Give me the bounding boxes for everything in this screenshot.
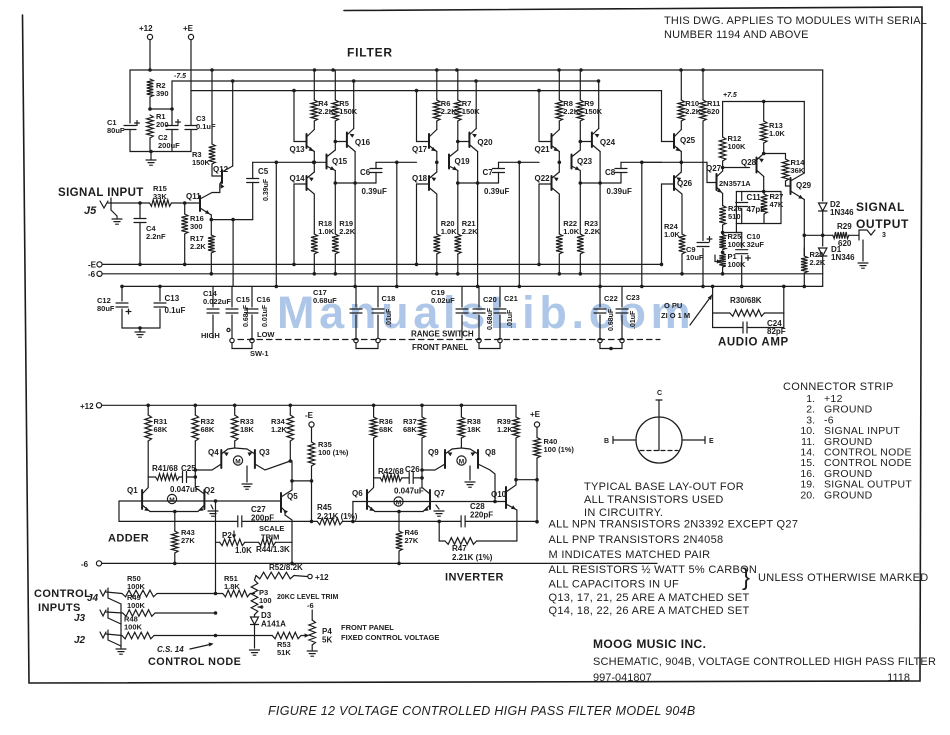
capacitor C18 .01uF (377, 286, 379, 307)
capacitor C8 0.39uF (620, 173, 622, 184)
svg-text:+E: +E (530, 410, 541, 419)
+12 terminal (adder) (96, 403, 101, 408)
svg-text:FIGURE 12 VOLTAGE CONTROLLED: FIGURE 12 VOLTAGE CONTROLLED HIGH PASS F… (268, 704, 696, 718)
node R16 tap (183, 201, 187, 205)
wire to summing line (118, 501, 120, 521)
+E terminal (188, 34, 193, 39)
wire Q14 base to -E bus (293, 184, 295, 264)
svg-text:.01uF: .01uF (507, 309, 514, 328)
svg-text:J2: J2 (74, 635, 86, 646)
svg-text:2.2K: 2.2K (190, 242, 206, 251)
output jack (858, 230, 860, 240)
wire +E down to +E bus corner (190, 40, 192, 91)
wire node drop to cap bus (641, 162, 643, 286)
svg-text:220pF: 220pF (470, 511, 493, 520)
svg-text:CONTROL NODE: CONTROL NODE (148, 656, 241, 668)
svg-text:1.2K: 1.2K (271, 425, 287, 434)
capacitor C20 0.68uF (478, 286, 480, 307)
svg-text:5K: 5K (322, 636, 332, 645)
wire Q26 base to -E bus (661, 184, 663, 264)
+12 adder bus (102, 404, 516, 406)
wire top bus corner down to D2 (822, 70, 824, 201)
svg-text:0.02uF: 0.02uF (431, 296, 455, 305)
svg-text:18K: 18K (467, 425, 481, 434)
jack ground rail (108, 598, 121, 648)
diode D3 A141A (254, 615, 256, 617)
svg-text:Q22: Q22 (535, 174, 551, 183)
svg-text:C13: C13 (165, 294, 180, 303)
svg-text:2.2nF: 2.2nF (146, 232, 166, 241)
svg-text:1.0K: 1.0K (769, 129, 785, 138)
svg-text:0.68uF: 0.68uF (313, 296, 337, 305)
capacitor C22 0.68uF (599, 286, 601, 307)
capacitor C11 47pF (741, 192, 743, 201)
resistor R32 68K (194, 405, 196, 415)
svg-text:ALL TRANSISTORS USED: ALL TRANSISTORS USED (584, 494, 724, 506)
wire R35 down to summing node (311, 481, 313, 522)
svg-text:Q21: Q21 (535, 145, 551, 154)
wire Q5 emitter down (285, 515, 292, 542)
resistor R35 100 (1%) (311, 427, 313, 442)
svg-text:100K: 100K (127, 601, 146, 610)
resistor R5 150K (334, 70, 336, 100)
capacitor C23 .01uF (621, 286, 623, 307)
resistor R43 27K (174, 512, 176, 532)
svg-text:0.39uF: 0.39uF (484, 187, 509, 196)
wire Q24 collector down (599, 152, 601, 184)
+12 terminal (R52) (308, 574, 312, 578)
svg-text:200: 200 (156, 120, 169, 129)
svg-text:100K: 100K (124, 622, 143, 631)
svg-text:M: M (235, 459, 240, 466)
svg-text:Q28: Q28 (741, 158, 757, 167)
svg-text:A141A: A141A (261, 620, 286, 629)
svg-text:LOW: LOW (257, 330, 275, 339)
svg-text:C7: C7 (483, 168, 494, 177)
svg-text:100K: 100K (728, 142, 747, 151)
ground at J5 (111, 210, 117, 216)
wire Q11 emitter node (211, 219, 252, 221)
svg-text:Q9: Q9 (428, 448, 439, 457)
svg-text:IN CIRCUITRY.: IN CIRCUITRY. (584, 507, 663, 519)
svg-text:AUDIO AMP: AUDIO AMP (718, 337, 789, 349)
svg-text:R52/8.2K: R52/8.2K (269, 563, 303, 572)
svg-text:100 (1%): 100 (1%) (544, 445, 575, 454)
wire C9 line (702, 121, 704, 241)
capacitor C2 (171, 81, 173, 109)
resistor R14 36K (785, 154, 787, 160)
svg-text:0.1uF: 0.1uF (165, 306, 186, 315)
wire node line to next stage (499, 161, 540, 163)
wire Q24 emitter to -7.5 bus (598, 81, 600, 129)
svg-text:C15: C15 (236, 295, 250, 304)
svg-text:Q8: Q8 (485, 448, 496, 457)
svg-text:CONNECTOR STRIP: CONNECTOR STRIP (783, 381, 894, 393)
svg-text:ADDER: ADDER (108, 533, 149, 545)
svg-text:FRONT PANEL: FRONT PANEL (412, 343, 468, 352)
svg-text:THIS DWG. APPLIES TO MODULES W: THIS DWG. APPLIES TO MODULES WITH SERIAL (664, 15, 927, 27)
ground between Q9/Q8 (469, 466, 471, 480)
control node junctions (214, 592, 218, 596)
wire stage Q17 base feed (416, 91, 418, 142)
node C4 tap (138, 201, 142, 205)
svg-text:O PU: O PU (664, 301, 682, 310)
svg-text:2.2K: 2.2K (462, 227, 478, 236)
svg-text:Q20: Q20 (477, 138, 493, 147)
svg-text:1.2K: 1.2K (497, 425, 513, 434)
node R26/R25 (721, 231, 725, 235)
svg-text:C18: C18 (382, 294, 396, 303)
svg-text:+12: +12 (315, 573, 329, 582)
svg-text:Q24: Q24 (600, 138, 616, 147)
node R2/R1 junction (148, 107, 152, 111)
svg-text:0.68uF: 0.68uF (608, 308, 615, 331)
svg-text:0.68uF: 0.68uF (487, 307, 494, 330)
svg-text:27K: 27K (181, 536, 195, 545)
ground for C12/C13 (138, 326, 142, 330)
switch contacts stage4 (598, 338, 602, 342)
svg-text:2.2K: 2.2K (810, 258, 826, 267)
svg-text:.01uF: .01uF (386, 308, 393, 327)
wire node drop to cap bus (518, 162, 520, 286)
node switch-cap drop stage0 (231, 218, 235, 222)
node R32 bottom (194, 475, 198, 479)
svg-text:Q13: Q13 (290, 145, 306, 154)
wire stage4 node to Q27 (643, 161, 708, 163)
resistor R45 2.21K (1%) (317, 518, 342, 525)
svg-text:SCHEMATIC, 904B, VOLTAGE CONTR: SCHEMATIC, 904B, VOLTAGE CONTROLLED HIGH… (593, 656, 936, 668)
wire R14 top (762, 152, 766, 156)
svg-text:C25: C25 (181, 464, 196, 473)
resistor R15 (150, 200, 172, 207)
bus +E (third rail) (191, 90, 662, 92)
svg-text:-7.5: -7.5 (174, 73, 186, 80)
capacitor C4 (139, 203, 141, 219)
capacitor C12 80uF (121, 286, 123, 301)
svg-text:27K: 27K (405, 536, 419, 545)
svg-text:150K: 150K (192, 158, 211, 167)
svg-text:M: M (459, 459, 464, 466)
resistor R10 2.2K (680, 70, 682, 100)
svg-text:C5: C5 (258, 167, 269, 176)
-6 bottom bus (102, 562, 657, 564)
svg-text:200uF: 200uF (158, 141, 180, 150)
svg-text:100K: 100K (728, 240, 747, 249)
wire Q28 collector to feedback box (763, 177, 765, 192)
+12 terminal (147, 34, 152, 39)
switch SW-1 contacts stage1 (230, 338, 234, 342)
svg-text:M INDICATES MATCHED PAIR: M INDICATES MATCHED PAIR (549, 549, 711, 561)
wire Q12 collector to -7.5 bus (232, 81, 234, 166)
resistor R40 100 (1%) (536, 427, 538, 437)
capacitor C3 (190, 91, 192, 126)
svg-text:Q3: Q3 (259, 448, 270, 457)
svg-text:1118: 1118 (887, 672, 910, 684)
output line (821, 234, 825, 238)
capacitor C9 (697, 242, 709, 244)
svg-text:100: 100 (259, 596, 272, 605)
svg-text:Q18: Q18 (412, 174, 428, 183)
svg-text:INVERTER: INVERTER (445, 572, 504, 584)
svg-text:10uF: 10uF (686, 253, 704, 262)
resistor R47 2.21K (1%) (438, 521, 440, 541)
wire stage4 base feed (661, 91, 663, 142)
svg-text:FIXED CONTROL VOLTAGE: FIXED CONTROL VOLTAGE (341, 633, 439, 642)
wire stage Q21 base feed (538, 91, 540, 142)
svg-text:J5: J5 (84, 205, 97, 217)
wire +12 to bus (149, 40, 151, 70)
svg-text:1N346: 1N346 (831, 253, 855, 262)
svg-text:Q14: Q14 (290, 174, 306, 183)
resistor R12 100K (722, 102, 724, 138)
resistor R22 1.0K (556, 234, 563, 254)
capacitor C19 0.02uF (461, 286, 463, 307)
resistor R36 68K (373, 405, 375, 417)
svg-text:-E: -E (305, 411, 314, 420)
wire lower drop to cap bus (477, 183, 479, 286)
svg-text:997-041807: 997-041807 (593, 672, 652, 684)
Q9 collector loop (422, 464, 445, 470)
svg-text:32uF: 32uF (747, 240, 765, 249)
resistor R26 510 (719, 206, 726, 225)
svg-text:ZI O 1 M: ZI O 1 M (661, 311, 690, 320)
common emitter line Q6/Q7 (375, 511, 423, 513)
svg-text:Q25: Q25 (680, 136, 696, 145)
svg-text:68K: 68K (154, 425, 168, 434)
svg-text:82pF: 82pF (767, 327, 786, 336)
svg-text:47K: 47K (770, 200, 784, 209)
wire lower node (334, 171, 336, 184)
resistor R18 1.0K (311, 234, 318, 254)
svg-text:Q15: Q15 (332, 157, 348, 166)
wire Q27 emitter down (722, 194, 724, 206)
svg-text:300: 300 (190, 222, 203, 231)
svg-text:C22: C22 (604, 294, 618, 303)
svg-text:2.2K: 2.2K (339, 227, 355, 236)
capacitor C1 (129, 70, 131, 123)
svg-text:C16: C16 (257, 295, 271, 304)
svg-text:UNLESS OTHERWISE MARKED: UNLESS OTHERWISE MARKED (758, 572, 929, 584)
svg-text:ALL CAPACITORS IN UF: ALL CAPACITORS IN UF (549, 579, 680, 591)
svg-text:0.39uF: 0.39uF (362, 187, 387, 196)
wire stage1 node line (253, 161, 327, 163)
svg-text:2.2K: 2.2K (584, 227, 600, 236)
capacitor C21 .01uF (499, 286, 501, 307)
svg-text:}: } (742, 564, 750, 591)
svg-text:Q5: Q5 (287, 492, 298, 501)
svg-text:MOOG MUSIC INC.: MOOG MUSIC INC. (593, 637, 706, 651)
node emitter junction Q17/Q18 (436, 152, 438, 173)
dashed front-panel line (238, 339, 660, 341)
svg-text:Q10: Q10 (491, 490, 507, 499)
switch contacts stage3 (477, 338, 481, 342)
svg-text:FILTER: FILTER (347, 46, 393, 60)
svg-text:100K: 100K (127, 582, 146, 591)
wire R39/R40 tie (516, 479, 537, 481)
wire Q22 base to -E bus (538, 184, 540, 264)
resistor R3 (211, 70, 213, 144)
wire lower drop to cap bus (599, 183, 601, 286)
svg-text:R44/1.3K: R44/1.3K (256, 545, 290, 554)
ground between Q4/Q3 (246, 466, 248, 482)
svg-text:18K: 18K (240, 425, 254, 434)
ground for power filter (149, 150, 153, 154)
resistor R17 (210, 220, 212, 235)
resistor R53 51K (272, 632, 301, 639)
svg-text:100 (1%): 100 (1%) (318, 448, 349, 457)
svg-text:J4: J4 (87, 593, 99, 604)
resistor R6 2.2K (436, 70, 438, 100)
wire lower node (579, 171, 581, 184)
wire J4 row (106, 592, 122, 594)
resistor R29 620 (833, 232, 849, 239)
svg-text:R45: R45 (317, 503, 332, 512)
wire Q20 collector down (477, 152, 479, 184)
feedback box bottom (736, 223, 781, 225)
Q4 collector loop (195, 464, 221, 470)
resistor R1 (147, 115, 154, 138)
svg-text:150K: 150K (339, 107, 358, 116)
diode D1 1N346 (822, 235, 824, 246)
resistor R50 100K (122, 590, 157, 597)
resistor R37 68K (421, 405, 423, 417)
potentiometer P4 5K (309, 620, 316, 645)
resistor R23 2.2K (577, 234, 584, 254)
svg-text:C6: C6 (360, 168, 371, 177)
svg-text:OUTPUT: OUTPUT (856, 217, 909, 231)
jack sleeve ground (862, 240, 864, 261)
svg-text:GROUND: GROUND (824, 489, 873, 501)
svg-text:Q29: Q29 (796, 181, 812, 190)
resistor R33 18K (234, 405, 236, 415)
svg-text:Q14, 18, 22, 26 ARE A MATCHED: Q14, 18, 22, 26 ARE A MATCHED SET (549, 605, 750, 617)
svg-text:20KC LEVEL TRIM: 20KC LEVEL TRIM (277, 594, 338, 601)
feedback box top (736, 191, 781, 193)
wire Q16 emitter to -7.5 bus (353, 81, 355, 129)
resistor R46 27K (398, 512, 400, 532)
wire lower drop to cap bus (354, 183, 356, 286)
svg-text:+12: +12 (139, 24, 153, 33)
base line Q6-Q7-Q10 (353, 501, 506, 503)
node Q11 emitter (210, 215, 212, 220)
wire stage1 node drop (275, 162, 277, 286)
svg-text:SW-1: SW-1 (250, 349, 269, 358)
svg-text:150K: 150K (462, 107, 481, 116)
svg-text:R29: R29 (837, 222, 852, 231)
resistor R4 2.2K (313, 70, 315, 100)
resistor R28 2.2K (803, 248, 805, 256)
svg-text:20.: 20. (800, 489, 815, 501)
svg-text:ALL RESISTORS ½ WATT 5% CARBON: ALL RESISTORS ½ WATT 5% CARBON (549, 564, 758, 576)
resistor R51 1.8K (223, 590, 250, 597)
svg-text:1.0K: 1.0K (235, 546, 252, 555)
svg-text:Q16: Q16 (355, 138, 371, 147)
resistor R39 1.2K (515, 405, 517, 417)
svg-text:P2: P2 (222, 531, 232, 540)
svg-text:150K: 150K (584, 107, 603, 116)
svg-text:100K: 100K (728, 260, 747, 269)
svg-text:C20: C20 (483, 295, 497, 304)
wire J3 row (106, 612, 123, 613)
svg-text:.01uF: .01uF (630, 310, 637, 329)
node Q24 base (579, 140, 583, 144)
capacitor C10 32uF (741, 233, 743, 248)
resistor R8 2.2K (558, 70, 560, 100)
diode D2 1N346 (819, 203, 827, 211)
wire node drop to cap bus (396, 162, 398, 286)
resistor R21 2.2K (455, 234, 462, 254)
wire lower node (457, 171, 459, 184)
svg-text:J3: J3 (74, 613, 86, 624)
resistor R30/68K (713, 312, 730, 314)
node Q20 base (456, 140, 460, 144)
summing line with C27 (119, 520, 237, 522)
svg-text:68K: 68K (403, 425, 417, 434)
svg-text:1.0K: 1.0K (664, 230, 680, 239)
resistor R49 100K (123, 610, 155, 617)
capacitor C16 0.01uF (251, 286, 253, 307)
svg-text:HIGH: HIGH (201, 331, 220, 340)
svg-text:2.21K (1%): 2.21K (1%) (317, 512, 358, 521)
wire Q10 emitter to R47 (516, 510, 518, 541)
svg-text:Q17: Q17 (412, 145, 428, 154)
svg-text:51K: 51K (277, 648, 291, 657)
resistor R13 1.0K (763, 102, 765, 122)
svg-text:FRONT PANEL: FRONT PANEL (341, 623, 394, 632)
svg-text:0.01uF: 0.01uF (262, 304, 269, 327)
base line Q1-Q2-Q5 (119, 500, 281, 502)
wire node line to next stage (376, 161, 417, 163)
node emitter junction Q13/Q14 (313, 152, 315, 173)
svg-text:Q27: Q27 (706, 164, 722, 173)
bus -7.5 (second rail) (172, 80, 599, 82)
wire Q20 emitter to -7.5 bus (475, 81, 477, 129)
svg-text:R47: R47 (452, 544, 467, 553)
capacitor-bus (switch cap rail) (122, 285, 823, 287)
resistor R48 100K (122, 632, 154, 639)
wire inverter input (352, 502, 354, 522)
capacitor C17 0.68uF (355, 286, 357, 307)
potentiometer P3 100 (250, 593, 254, 595)
svg-text:-6: -6 (81, 560, 89, 569)
wire J2 row (106, 634, 122, 636)
bus +12 (top horizontal rail) (130, 69, 823, 71)
svg-text:510: 510 (728, 212, 741, 221)
svg-text:TYPICAL BASE LAY-OUT FOR: TYPICAL BASE LAY-OUT FOR (584, 481, 744, 493)
resistor R27 47K (763, 192, 765, 195)
-6 terminal (bottom bus) (96, 561, 101, 566)
ground at Q7 (436, 505, 439, 509)
svg-text:0.047uF: 0.047uF (394, 487, 424, 496)
capacitor C13 0.1uF (159, 286, 161, 301)
capacitor C27 200pF (237, 516, 239, 527)
resistor R31 68K (147, 405, 149, 415)
svg-text:-6: -6 (88, 270, 96, 279)
wire J5 to R15 (108, 202, 150, 204)
matched pair mark M (Q6/Q7) (394, 497, 403, 506)
node Q16 base (334, 140, 338, 144)
svg-text:68K: 68K (201, 425, 215, 434)
node Q25/Q26 emitters (680, 152, 682, 173)
resistor R2 (147, 79, 154, 97)
resistor R16 (184, 203, 186, 214)
wire Q18 base to -E bus (416, 184, 418, 264)
resistor R25 100K (719, 234, 726, 249)
svg-text:M: M (396, 500, 401, 507)
node emitter junction Q21/Q22 (558, 152, 560, 173)
svg-text:ALL PNP TRANSISTORS 2N4058: ALL PNP TRANSISTORS 2N4058 (549, 534, 724, 546)
ground under D3 (250, 649, 260, 651)
